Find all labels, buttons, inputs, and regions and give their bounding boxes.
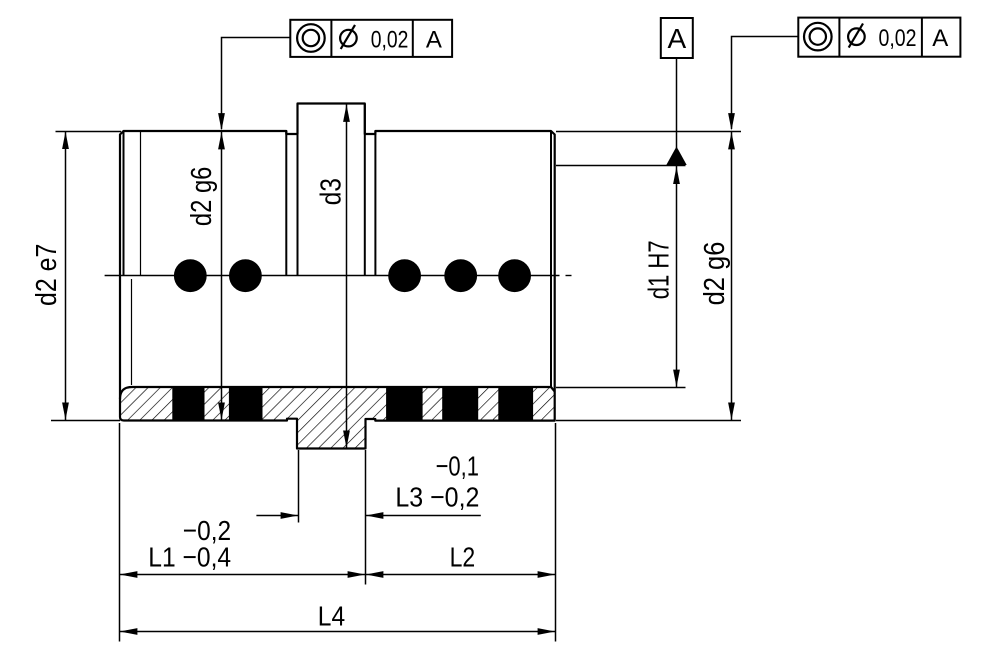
boss left edge bbox=[297, 104, 299, 276]
svg-text:−0,1: −0,1 bbox=[436, 451, 479, 482]
boss right edge bbox=[364, 104, 366, 276]
hole dot 2 bbox=[229, 259, 262, 292]
svg-text:d2 e7: d2 e7 bbox=[31, 244, 63, 306]
hole dot 5 bbox=[498, 259, 531, 292]
svg-text:L3 −0,2: L3 −0,2 bbox=[395, 482, 479, 513]
slot S1 (section, black) bbox=[172, 386, 204, 421]
slot S3 (section, black) bbox=[386, 386, 423, 421]
svg-text:d1 H7: d1 H7 bbox=[644, 240, 676, 299]
right chamfer edge bbox=[550, 131, 552, 388]
slot S5 (section, black) bbox=[498, 386, 533, 421]
groove left edge bbox=[285, 131, 287, 276]
dimension L2 bbox=[366, 423, 556, 642]
section hatch (bottom wall + bottom boss) bbox=[120, 387, 555, 449]
dimension d2 e7 bbox=[31, 131, 121, 421]
feature control frame left (concentricity 0,02 A) bbox=[218, 20, 452, 131]
svg-text:A: A bbox=[426, 26, 442, 53]
feature control frame right (concentricity 0,02 A) bbox=[728, 18, 960, 131]
part silhouette outline bbox=[120, 104, 555, 449]
hole dot 4 bbox=[444, 259, 477, 292]
svg-text:L4: L4 bbox=[318, 601, 345, 632]
dimension L1 bbox=[120, 423, 556, 642]
dimension d1 H7 bbox=[556, 166, 686, 388]
dimension L4 bbox=[120, 601, 556, 635]
bore bottom wall top edge (band top) bbox=[120, 387, 555, 399]
slot S2 (section, black) bbox=[229, 386, 263, 421]
hole dot 3 bbox=[388, 259, 421, 292]
dimension d2 g6 (left) bbox=[186, 131, 225, 421]
hole dot 1 bbox=[174, 259, 207, 292]
svg-text:A: A bbox=[667, 23, 686, 54]
svg-text:A: A bbox=[932, 25, 948, 52]
svg-text:d3: d3 bbox=[315, 178, 347, 205]
svg-text:d2 g6: d2 g6 bbox=[699, 242, 731, 306]
dimension L3 bbox=[256, 450, 480, 585]
dimension d3 bbox=[315, 104, 350, 448]
internal edge line (thin, lower left) bbox=[131, 279, 133, 385]
groove right edge bbox=[374, 131, 376, 276]
centerline bbox=[105, 275, 572, 277]
svg-text:0,02: 0,02 bbox=[371, 26, 409, 53]
svg-text:L1 −0,4: L1 −0,4 bbox=[148, 541, 231, 572]
datum A symbol bbox=[661, 18, 693, 165]
svg-text:L2: L2 bbox=[450, 542, 476, 573]
svg-text:0,02: 0,02 bbox=[879, 25, 917, 52]
left chamfer edge bbox=[123, 131, 125, 276]
dimension d2 g6 (right) bbox=[556, 131, 741, 421]
slot S4 (section, black) bbox=[442, 386, 478, 421]
svg-text:d2 g6: d2 g6 bbox=[186, 167, 218, 227]
thread end line (thin, left) bbox=[140, 131, 142, 276]
